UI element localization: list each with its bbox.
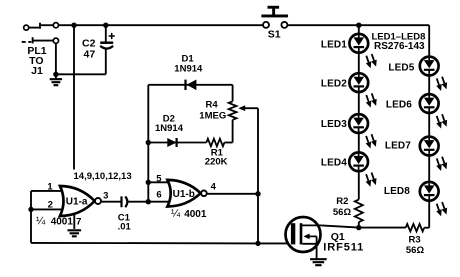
svg-text:1N914: 1N914: [155, 123, 184, 134]
wire C1 to U1-b pin 6: [128, 201, 170, 203]
capacitor C1: [122, 196, 128, 207]
svg-text:LED5: LED5: [388, 62, 414, 73]
ground (input): [50, 74, 62, 85]
op-amp gate U1-a (NOR 1/4 4001): [60, 186, 101, 216]
resistor R3: [406, 224, 425, 231]
resistor R1: [206, 139, 224, 147]
wire R1 to right branch corner: [224, 142, 232, 144]
svg-text:47: 47: [84, 49, 96, 61]
svg-text:RS276-143: RS276-143: [374, 41, 425, 52]
svg-text:LED4: LED4: [321, 158, 347, 169]
wire R4 bottom to R1 corner: [232, 120, 234, 143]
svg-text:1MEG: 1MEG: [199, 110, 226, 121]
svg-text:¼: ¼: [36, 216, 46, 228]
wire top supply rail (left of S1): [59, 24, 263, 26]
switch S1 (pushbutton): [261, 6, 288, 28]
wiper arrow of R4: [238, 105, 245, 111]
svg-text:7: 7: [76, 216, 81, 227]
LED2: [349, 73, 376, 107]
wire wiper down to U1-b output node: [257, 108, 259, 243]
svg-text:U1-a: U1-a: [66, 197, 88, 208]
svg-text:1N914: 1N914: [174, 63, 203, 74]
wire U1-a input pin 2: [31, 208, 63, 210]
wire top supply rail (right of S1): [288, 24, 430, 26]
svg-text:U1-b: U1-b: [173, 189, 195, 200]
svg-text:LED3: LED3: [321, 119, 347, 130]
svg-text:J1: J1: [31, 65, 43, 77]
svg-text:4: 4: [211, 182, 217, 193]
svg-text:.01: .01: [118, 221, 132, 232]
transistor Q1 IRF511 (N-MOSFET): [286, 217, 322, 258]
LED5: [420, 57, 447, 91]
wire U1-b output pin 4: [207, 193, 258, 195]
wire LED1-LED4 anode column: [358, 25, 360, 199]
svg-text:LED7: LED7: [385, 141, 411, 152]
node pin5 junction: [146, 180, 151, 185]
svg-text:3: 3: [103, 191, 108, 202]
svg-text:R2: R2: [336, 196, 348, 207]
wire ground node to C2 negative: [56, 73, 106, 75]
wire D2 R1 branch: [148, 142, 206, 144]
wire PL1 return to ground node: [55, 43, 57, 74]
wire R4 wiper arm: [245, 107, 258, 109]
diode D2: [167, 138, 176, 147]
svg-text:LED2: LED2: [321, 78, 347, 89]
node drain / R2 junction: [356, 225, 361, 230]
svg-text:5: 5: [156, 174, 162, 185]
node junction top rail / U1 VDD drop: [71, 23, 76, 28]
svg-text:R3: R3: [409, 235, 421, 246]
wire U1-a input pin 1: [31, 190, 63, 192]
wire C2 negative lead: [105, 49, 107, 75]
wire U1-a tied inputs vertical: [30, 191, 32, 243]
capacitor C2: [100, 33, 115, 49]
wire VDD to 4001 pin 14: [73, 25, 75, 169]
svg-text:220K: 220K: [205, 157, 228, 168]
svg-text:14,9,10,12,13: 14,9,10,12,13: [74, 171, 132, 182]
wire R3 to LED8 column: [424, 227, 429, 229]
ground (U1-a pin 7): [68, 230, 82, 236]
node D2 junction: [146, 140, 151, 145]
wire Q1 drain to LED cathodes: [321, 225, 358, 227]
svg-text:2: 2: [48, 200, 53, 211]
node pin2 tie junction: [28, 207, 33, 212]
ground (Q1 source): [310, 259, 327, 265]
node pin4 / wiper column junction: [255, 191, 260, 196]
svg-text:¼: ¼: [171, 208, 181, 220]
LED1: [349, 34, 376, 68]
resistor R2: [355, 200, 363, 223]
wire U1-a output to C1: [101, 201, 121, 203]
wire U1-b input pin 5: [148, 181, 170, 183]
connector PL1 bottom contact: [22, 37, 59, 43]
LED6: [420, 94, 447, 128]
LED7: [420, 137, 447, 171]
node pin6 junction: [146, 199, 151, 204]
wire C2 positive lead: [105, 25, 107, 42]
wire right branch (D1 corner to R4): [232, 85, 234, 102]
svg-text:R4: R4: [206, 99, 219, 110]
svg-text:4001: 4001: [184, 209, 207, 220]
svg-text:6: 6: [156, 189, 161, 200]
node feedback / gate drive junction: [255, 241, 260, 246]
wire LED5-LED8 anode column: [428, 25, 430, 228]
wire U1-a pin 7 to ground: [73, 215, 75, 229]
svg-text:IRF511: IRF511: [323, 242, 364, 254]
op-amp gate U1-b (NOR 1/4 4001): [167, 180, 206, 207]
wire gate drive to Q1: [258, 242, 291, 244]
wire D1 branch: [148, 84, 232, 86]
svg-text:56Ω: 56Ω: [333, 207, 352, 218]
svg-text:S1: S1: [268, 29, 281, 41]
svg-text:LED6: LED6: [386, 100, 412, 111]
wire drain rail to R3: [359, 227, 406, 229]
wire oscillator feedback column: [147, 85, 149, 202]
LED3: [349, 114, 376, 148]
svg-text:56Ω: 56Ω: [406, 245, 425, 256]
resistor R4 (potentiometer): [229, 101, 237, 119]
LED4: [349, 152, 376, 186]
diode D1: [186, 80, 197, 91]
node junction top rail / LED1 column: [356, 23, 361, 28]
svg-text:1: 1: [47, 181, 53, 192]
node junction top rail / C2: [103, 23, 108, 28]
wire feedback rail to U1-a inputs: [31, 242, 258, 245]
svg-text:LED8: LED8: [384, 186, 410, 197]
node ground junction: [53, 72, 58, 77]
svg-text:LED1: LED1: [321, 40, 347, 51]
LED8: [420, 182, 447, 216]
svg-text:4001: 4001: [51, 217, 74, 228]
wire R2 to drain node: [358, 222, 360, 228]
connector PL1 top contact: [24, 23, 59, 31]
